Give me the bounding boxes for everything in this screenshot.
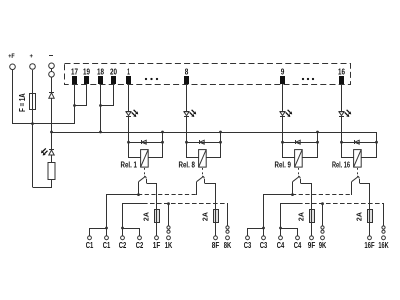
wire bus2 end to coil K16 right — [362, 143, 377, 158]
terminal C3 — [246, 236, 250, 240]
wire + down to fuse — [32, 70, 34, 93]
svg-text:Rel. 8: Rel. 8 — [179, 160, 196, 169]
wire fuse to terminal 9F — [311, 223, 313, 236]
link bar C1 pair — [90, 228, 106, 230]
LED V8 anode bar — [184, 111, 189, 113]
relay coil K16 — [354, 150, 362, 168]
LED V1 — [126, 112, 131, 116]
svg-text:C2: C2 — [119, 241, 127, 250]
contact S1 moving arm — [138, 177, 145, 182]
svg-text:C4: C4 — [294, 241, 302, 250]
contact S9 fixed tick — [300, 179, 302, 183]
terminal 1 — [126, 76, 131, 84]
junction bus2/minus line — [50, 131, 53, 134]
flyback diode D16 cathode bar — [354, 140, 356, 144]
svg-text:C2: C2 — [136, 241, 144, 250]
wire +F down to bus1 — [12, 70, 14, 124]
terminal 8F — [214, 236, 218, 240]
wire between minus terminals — [51, 69, 53, 71]
wire terminal C4 stub — [297, 228, 299, 236]
wire bus2 to coil K8 right — [207, 133, 221, 158]
wire LED V8 down — [186, 116, 188, 142]
terminal C2 — [138, 236, 142, 240]
contact S16 arm tip hook — [357, 176, 359, 178]
svg-text:C1: C1 — [86, 241, 94, 250]
wire terminal C3 stub — [263, 228, 265, 236]
svg-text:9F: 9F — [308, 241, 316, 250]
junction ch16 left/flyback — [340, 141, 343, 144]
flyback diode D1 cathode bar — [141, 140, 143, 144]
contact S1 fixed tick — [146, 179, 148, 183]
wire common C3 riser — [264, 195, 293, 229]
svg-text:2A: 2A — [297, 212, 306, 222]
fuse 1F through-wire — [156, 210, 158, 223]
LED V1 arrows — [132, 110, 139, 117]
svg-text:C3: C3 — [260, 241, 268, 250]
terminal C1 — [88, 236, 92, 240]
diode D1 cathode bar — [49, 92, 54, 94]
wire terminal 19 to 17 — [75, 84, 87, 106]
wire 8K down — [227, 204, 229, 226]
contact S8 moving arm — [196, 177, 203, 182]
junction ch16 right/flyback — [375, 141, 378, 144]
flyback diode wire ch9 — [282, 142, 318, 144]
wire ch1 to coil K1 left — [129, 143, 141, 158]
relay coil K9 — [295, 150, 303, 168]
wire bus2 to LED V1 — [51, 132, 53, 150]
terminal 8 — [184, 76, 189, 84]
svg-text:C3: C3 — [244, 241, 252, 250]
wire 16K down — [383, 204, 385, 226]
junction ch1 right/flyback — [161, 141, 164, 144]
wire LED V9 down — [282, 116, 284, 142]
wire contact S9 common down — [292, 182, 294, 195]
terminal 16 — [339, 76, 344, 84]
LED V1 arrows — [41, 148, 48, 155]
junction contact1 common — [137, 193, 140, 196]
ellipsis 1..8 — [145, 78, 158, 80]
wire terminal 20 to 18 — [101, 84, 114, 106]
relay coil K8 — [199, 150, 207, 168]
svg-text:Rel. 1: Rel. 1 — [121, 160, 138, 169]
LED V1 — [49, 150, 54, 155]
wire fuse to bus1 — [32, 110, 34, 124]
wire contact S1 common down — [138, 182, 140, 195]
wire terminal C2 stub — [122, 228, 124, 236]
svg-text:+: + — [30, 54, 34, 60]
svg-text:16F: 16F — [364, 241, 374, 250]
ellipsis 9..16 — [302, 78, 314, 80]
contact S8 fixed tick — [204, 179, 206, 183]
svg-text:1F: 1F — [153, 241, 161, 250]
svg-text:Rel. 9: Rel. 9 — [275, 160, 292, 169]
wire C2 riser — [123, 204, 144, 229]
junction riser C4 — [279, 227, 282, 230]
wire diode D1 to bus2 — [51, 98, 53, 132]
flyback diode wire ch8 — [186, 142, 220, 144]
LED V1 anode bar — [126, 111, 131, 113]
wire contact S16 to fuse — [360, 184, 370, 210]
wire contact S8 common down — [196, 182, 198, 195]
disconnect point 9K lower — [321, 230, 324, 233]
wire 9K down — [322, 204, 324, 226]
wire ch16 common up — [351, 182, 353, 195]
fuse F1 body — [30, 94, 36, 110]
terminal C3 — [262, 236, 266, 240]
svg-text:8K: 8K — [224, 241, 232, 250]
disconnect point 1K upper — [167, 226, 170, 229]
flyback diode D9 — [296, 140, 301, 144]
wire bus2 to coil K1 right — [149, 133, 163, 158]
terminal strip box — [65, 64, 351, 85]
flyback diode wire ch1 — [128, 142, 162, 144]
contact S9 arm tip hook — [298, 176, 300, 178]
LED V16 anode bar — [339, 111, 344, 113]
mechanical link K8 — [202, 168, 204, 177]
wire bus2 to coil K9 right — [303, 133, 318, 158]
wire terminal 8 to LED — [186, 84, 188, 112]
terminal 16F — [368, 236, 372, 240]
disconnect point 16K lower — [382, 230, 385, 233]
fuse 16F body — [368, 210, 373, 223]
wire ch16 to coil K16 left — [342, 143, 354, 158]
terminal C4 — [279, 236, 283, 240]
fuse 8F through-wire — [215, 210, 217, 223]
svg-text:9K: 9K — [319, 241, 327, 250]
junction bus2 ch9 — [316, 131, 319, 134]
terminal 19 — [84, 76, 89, 84]
LED V8 cathode bar — [184, 116, 189, 118]
wire terminal C2 stub — [139, 228, 141, 236]
wire common C1 riser — [107, 195, 139, 229]
dashed K link ch9-ch16 — [298, 203, 384, 205]
wire LED V16 down — [341, 116, 343, 142]
wire terminal C4 stub — [280, 228, 282, 236]
junction bus2 ch8 — [219, 131, 222, 134]
flyback diode D9 cathode bar — [295, 140, 297, 144]
contact S1 arm tip hook — [144, 176, 146, 178]
wire fuse to terminal 16F — [369, 223, 371, 236]
terminal C2 — [121, 236, 125, 240]
svg-text:16: 16 — [338, 68, 345, 77]
terminal 8K — [226, 236, 230, 240]
junction 17/19 — [73, 104, 76, 107]
disconnect point 8K lower — [226, 230, 229, 233]
link bar C2 pair — [122, 228, 140, 230]
dashed K link ch1-ch8 — [143, 203, 228, 205]
svg-text:2A: 2A — [142, 212, 151, 222]
junction ch9 left/flyback — [281, 141, 284, 144]
fuse 9F through-wire — [311, 210, 313, 223]
terminal 9K — [321, 236, 325, 240]
fuse 16F through-wire — [369, 210, 371, 223]
bus2 0V rail — [52, 133, 377, 158]
junction 1K on link — [167, 202, 170, 205]
mechanical link K16 — [357, 168, 359, 177]
LED V8 — [184, 112, 189, 116]
LED V9 arrows — [286, 110, 293, 117]
LED V9 — [280, 112, 285, 116]
junction riser C3 — [262, 227, 265, 230]
svg-text:+F: +F — [8, 54, 15, 60]
svg-text:Rel. 16: Rel. 16 — [332, 160, 350, 169]
wire terminal 16 to LED — [341, 84, 343, 112]
svg-text:9: 9 — [281, 68, 285, 77]
junction ch8 right/flyback — [219, 141, 222, 144]
junction riser C1 — [105, 227, 108, 230]
terminal 9 — [280, 76, 285, 84]
wire terminal 1 to LED — [128, 84, 130, 112]
terminal +F — [10, 64, 16, 70]
wire terminal C1 stub — [89, 228, 91, 236]
flyback diode D1 — [142, 140, 147, 144]
terminal + — [30, 64, 36, 70]
svg-text:F = 1A: F = 1A — [18, 93, 27, 112]
contact S8 arm tip hook — [202, 176, 204, 178]
terminal 1F — [155, 236, 159, 240]
wire + line down left branch — [32, 124, 34, 187]
svg-text:2A: 2A — [355, 212, 364, 222]
junction contact9 common — [291, 193, 294, 196]
LED V9 anode bar — [280, 111, 285, 113]
bus1 +24V rail — [13, 84, 75, 124]
flyback diode D16 — [355, 140, 360, 144]
svg-text:1: 1 — [127, 68, 130, 77]
wire resistor R1 to + line — [33, 180, 52, 188]
wire minus to diode D1 — [51, 77, 53, 92]
svg-text:18: 18 — [97, 68, 104, 77]
junction ch1 left/flyback — [127, 141, 130, 144]
LED V16 — [339, 112, 344, 116]
svg-text:2A: 2A — [201, 212, 210, 222]
svg-text:C4: C4 — [277, 241, 285, 250]
LED V8 arrows — [190, 110, 197, 117]
wire terminal C3 stub — [247, 228, 249, 236]
wire contact S8 to fuse — [205, 184, 216, 210]
wire terminal 9 to LED — [282, 84, 284, 112]
svg-text:16K: 16K — [378, 241, 388, 250]
junction bus2 ch1 — [161, 131, 164, 134]
dashed common link ch1-ch8 — [138, 194, 196, 196]
contact S16 fixed tick — [359, 179, 361, 183]
wire ch8 common up — [196, 182, 198, 195]
contact S9 moving arm — [292, 177, 299, 182]
terminal 9F — [310, 236, 314, 240]
terminal minus upper — [49, 63, 55, 69]
junction 18/bus2 — [99, 131, 102, 134]
disconnect point 8K upper — [226, 226, 229, 229]
fuse F1 through-wire — [32, 93, 34, 110]
junction ch9 right/flyback — [316, 141, 319, 144]
LED V16 arrows — [345, 110, 352, 117]
fuse 9F body — [310, 210, 315, 223]
relay coil K1 — [141, 150, 149, 168]
wire LED V1 to resistor R1 — [51, 155, 53, 163]
svg-text:8F: 8F — [212, 241, 220, 250]
wire contact S1 to fuse — [147, 184, 157, 210]
flyback diode D8 cathode bar — [199, 140, 201, 144]
wire contact S16 common down — [351, 182, 353, 195]
wire terminal C1 stub — [106, 228, 108, 236]
wire LED V1 down — [128, 116, 130, 142]
wire 1K down — [168, 204, 170, 226]
terminal 20 — [111, 76, 116, 84]
junction ch8 left/flyback — [185, 141, 188, 144]
LED V1 cathode bar — [49, 149, 54, 151]
mechanical link K9 — [298, 168, 300, 177]
flyback diode D8 — [200, 140, 205, 144]
contact S16 moving arm — [351, 177, 358, 182]
wire ch9 to coil K9 left — [283, 143, 295, 158]
terminal C4 — [296, 236, 300, 240]
svg-text:19: 19 — [83, 68, 90, 77]
terminal 16K — [382, 236, 386, 240]
flyback diode wire ch16 — [342, 142, 376, 144]
wire terminal 18 down to bus2 — [100, 84, 102, 132]
terminal C1 — [105, 236, 109, 240]
resistor R1 — [48, 163, 55, 180]
junction bus1/+ line — [31, 122, 34, 125]
LED V1 cathode bar — [126, 116, 131, 118]
fuse 8F body — [214, 210, 219, 223]
terminal 17 — [72, 76, 77, 84]
link bar C3 pair — [248, 228, 264, 230]
wire terminal 17 down — [74, 84, 76, 124]
wire ch8 to coil K8 left — [187, 143, 199, 158]
fuse 1F body — [155, 210, 160, 223]
mechanical link K1 — [144, 168, 146, 177]
svg-text:1K: 1K — [165, 241, 173, 250]
label minus — [49, 55, 53, 57]
LED V16 cathode bar — [339, 116, 344, 118]
terminal minus lower — [49, 72, 55, 78]
svg-text:17: 17 — [71, 68, 78, 77]
svg-text:C1: C1 — [103, 241, 111, 250]
terminal 18 — [98, 76, 103, 84]
disconnect point 9K upper — [321, 226, 324, 229]
svg-text:8: 8 — [185, 68, 189, 77]
diode D1 — [49, 93, 54, 98]
LED V9 cathode bar — [280, 116, 285, 118]
svg-text:20: 20 — [110, 68, 117, 77]
wire C4 riser — [281, 204, 299, 229]
junction 9K on link — [321, 202, 324, 205]
wire contact S9 to fuse — [301, 184, 312, 210]
disconnect point 1K lower — [167, 230, 170, 233]
junction 18/20 — [99, 104, 102, 107]
wire fuse to terminal 8F — [215, 223, 217, 236]
disconnect point 16K upper — [382, 226, 385, 229]
junction riser C2 — [121, 227, 124, 230]
terminal 1K — [167, 236, 171, 240]
link bar C4 pair — [280, 228, 298, 230]
dashed common link ch9-ch16 — [292, 194, 352, 196]
wire fuse to terminal 1F — [156, 223, 158, 236]
